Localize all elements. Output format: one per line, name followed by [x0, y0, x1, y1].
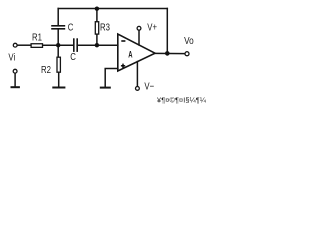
- wire: V+ supply lead: [138, 30, 140, 45]
- resistor R1: [31, 44, 42, 48]
- terminal V-: [136, 87, 140, 91]
- svg-text:V−: V−: [144, 80, 154, 91]
- junction node top rail / R3: [95, 7, 99, 11]
- svg-text:Vi: Vi: [8, 52, 15, 63]
- capacitor C (series, C2): [74, 38, 77, 52]
- capacitor C (top, C1): [51, 26, 65, 29]
- wire: Vi terminal to R1: [18, 44, 31, 46]
- wire: Vi lower terminal stub: [14, 73, 16, 86]
- terminal Vo (output): [185, 52, 189, 56]
- terminal V+: [137, 26, 141, 30]
- svg-text:A: A: [128, 49, 133, 60]
- svg-text:R3: R3: [100, 21, 110, 32]
- wire: R2 to ground: [58, 73, 60, 88]
- wire: R1 to series capacitor C2: [43, 44, 73, 46]
- op-amp U1 triangle: [118, 34, 155, 71]
- wire: top feedback rail: [58, 8, 167, 10]
- wire: R3 to main node line: [96, 35, 98, 46]
- junction node at R1/C1/R2: [56, 43, 60, 47]
- wire: feedback vertical right: [166, 9, 168, 54]
- wire: left vertical from top rail down to capacitor C1: [57, 9, 59, 26]
- svg-text:V+: V+: [147, 21, 157, 32]
- wire: op-amp output to Vo: [155, 52, 185, 54]
- junction node R3 / main line: [95, 43, 99, 47]
- wire: R3 branch vertical, top rail to R3: [96, 9, 98, 22]
- svg-text:R1: R1: [32, 32, 42, 43]
- svg-text:R2: R2: [41, 64, 51, 75]
- svg-text:C: C: [68, 22, 74, 33]
- ground bar lower-left terminal: [11, 86, 20, 88]
- terminal lower-left: [13, 69, 17, 73]
- op-amp plus sign: [121, 64, 125, 68]
- svg-text:C: C: [70, 51, 76, 62]
- resistor R2: [57, 57, 60, 72]
- resistor R3: [95, 22, 98, 34]
- junction node output / feedback: [165, 51, 170, 56]
- wire: V- supply lead: [136, 62, 138, 87]
- op-amp minus sign: [121, 40, 125, 42]
- wire: non-inverting input L-wire: [105, 69, 118, 88]
- wire: C1 bottom to main node: [57, 29, 59, 45]
- wire: R2 branch down from node: [57, 45, 59, 56]
- svg-text:¥¶¤©¶¤I§¼¶¼: ¥¶¤©¶¤I§¼¶¼: [157, 96, 206, 105]
- ground bar under R2: [52, 87, 65, 89]
- svg-text:Vo: Vo: [184, 35, 194, 46]
- ground bar under non-inverting input: [100, 87, 111, 89]
- wire: C2 to op-amp inverting input: [77, 44, 118, 46]
- terminal Vi (input): [13, 43, 17, 47]
